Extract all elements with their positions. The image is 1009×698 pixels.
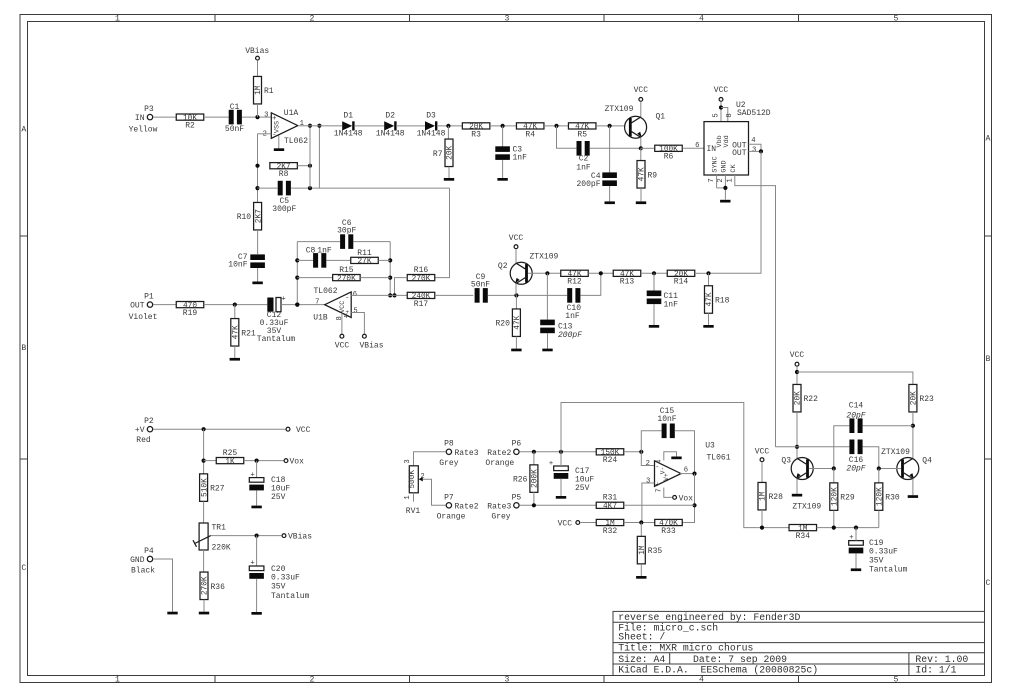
svg-text:270K: 270K	[412, 275, 431, 283]
wire R15 right	[360, 277, 390, 279]
wire Q4 base	[879, 468, 901, 470]
ground	[167, 612, 177, 615]
capacitor C19 (tantalum)	[849, 534, 908, 575]
wire D1 to D2	[354, 125, 384, 127]
svg-text:P5: P5	[512, 494, 522, 503]
wire R31 to output node	[624, 504, 695, 506]
diode D1	[342, 121, 352, 130]
wire feedback right vertical	[389, 242, 391, 296]
svg-text:P7: P7	[444, 494, 454, 503]
svg-text:300pF: 300pF	[272, 205, 296, 214]
svg-text:3: 3	[264, 112, 268, 120]
resistor R17	[407, 292, 435, 298]
wire down to R27	[203, 429, 205, 474]
capacitor C14	[846, 402, 865, 434]
svg-text:1: 1	[404, 495, 412, 499]
wire U2 OUT down to R14/R18 node	[709, 151, 762, 273]
svg-text:1nF: 1nF	[317, 247, 332, 256]
resistor R19	[176, 302, 204, 308]
capacitor C9	[471, 273, 490, 303]
svg-text:R8: R8	[279, 170, 289, 179]
ground	[792, 494, 802, 497]
svg-text:R3: R3	[471, 130, 481, 139]
connector P5 (Rate3)	[487, 494, 521, 522]
svg-text:VCC: VCC	[509, 234, 524, 243]
svg-text:R26: R26	[513, 476, 528, 485]
svg-text:Tantalum: Tantalum	[271, 592, 310, 601]
svg-text:1: 1	[300, 120, 304, 128]
resistor R3	[462, 123, 490, 129]
wire U1A pin 2	[258, 133, 272, 135]
ground	[444, 178, 454, 181]
svg-text:C: C	[21, 564, 26, 573]
potentiometer RV1 (500K)	[404, 459, 425, 516]
svg-text:TR1: TR1	[212, 524, 227, 533]
resistor R5	[568, 123, 596, 129]
svg-text:CK: CK	[730, 164, 738, 173]
svg-text:U1B: U1B	[313, 314, 328, 323]
node U2 supply	[719, 105, 723, 109]
wire feedback left vertical	[296, 242, 298, 305]
svg-text:R27: R27	[210, 485, 225, 494]
wire base node down to C13	[546, 273, 548, 319]
wire U3 pin3 down	[642, 483, 655, 523]
svg-text:20K: 20K	[795, 391, 803, 405]
svg-text:R23: R23	[919, 395, 934, 404]
svg-text:200pF: 200pF	[576, 180, 600, 189]
wire C16 to Q4 base node	[863, 447, 879, 469]
svg-text:R7: R7	[433, 150, 443, 159]
svg-text:1N4148: 1N4148	[417, 130, 446, 139]
svg-text:GND: GND	[720, 160, 728, 172]
svg-text:1nF: 1nF	[565, 312, 580, 321]
wire TR1 wiper to VBias	[211, 535, 281, 537]
svg-text:D2: D2	[385, 111, 395, 120]
svg-text:R5: R5	[577, 130, 587, 139]
svg-text:20pF: 20pF	[846, 465, 865, 474]
svg-text:R25: R25	[223, 449, 238, 458]
op-amp U1B (TL062)	[313, 287, 357, 322]
svg-text:25V: 25V	[575, 484, 590, 493]
ground	[649, 325, 659, 328]
ground	[542, 349, 552, 352]
svg-text:Date: 7 sep 2009: Date: 7 sep 2009	[693, 654, 787, 665]
svg-text:VCC: VCC	[714, 86, 729, 95]
ground	[556, 496, 566, 499]
svg-text:5: 5	[894, 675, 899, 684]
svg-text:VCC: VCC	[634, 86, 649, 95]
svg-text:VCC: VCC	[339, 301, 347, 313]
svg-text:B: B	[21, 344, 26, 353]
resistor R27	[200, 474, 208, 502]
svg-text:R13: R13	[620, 278, 635, 287]
resistor R34	[789, 525, 817, 531]
power VCC (U1B)	[335, 334, 350, 350]
wire R14 right	[695, 272, 709, 274]
wire C15 left	[641, 431, 661, 452]
svg-text:2: 2	[310, 675, 315, 684]
svg-text:ZTX109: ZTX109	[530, 253, 559, 262]
ground	[251, 506, 261, 509]
svg-text:120K: 120K	[832, 487, 840, 506]
wire R1 to pin3 node	[257, 104, 259, 117]
svg-text:5: 5	[713, 113, 721, 117]
svg-text:ZTX109: ZTX109	[605, 105, 634, 114]
svg-text:Rate2: Rate2	[487, 449, 511, 458]
svg-text:Q3: Q3	[781, 457, 791, 466]
svg-text:R6: R6	[664, 153, 674, 162]
wire C4 to ground	[609, 186, 611, 201]
ground	[636, 201, 646, 204]
svg-text:1K: 1K	[225, 458, 235, 466]
wire R30 down	[878, 510, 880, 527]
svg-text:Vox: Vox	[679, 494, 694, 503]
capacitor C1	[225, 103, 244, 134]
power VCC (Q1)	[634, 86, 649, 101]
transistor Q2 (ZTX109)	[498, 253, 559, 285]
resistor R20	[512, 309, 520, 337]
wire U2 GND pin	[724, 175, 726, 200]
power VCC (Q2)	[509, 234, 524, 248]
wire R17 to C9	[435, 294, 474, 296]
power VCC (R28)	[755, 448, 770, 462]
svg-text:1nF: 1nF	[664, 300, 679, 309]
power VBias (top)	[245, 47, 269, 60]
svg-text:VBias: VBias	[359, 341, 383, 350]
svg-text:Orange: Orange	[485, 459, 514, 468]
connector P4 (GND)	[130, 547, 155, 576]
wire Q2 emitter down	[515, 284, 517, 296]
svg-text:TL062: TL062	[284, 137, 308, 146]
wire P6 to R24	[520, 451, 597, 453]
wire R29 down	[833, 510, 835, 527]
svg-text:47K: 47K	[233, 325, 241, 339]
ground	[908, 495, 918, 498]
wire R32 to R33	[624, 522, 655, 524]
wire C3 to ground	[502, 160, 504, 178]
wire to U2 Vdd	[721, 108, 728, 122]
wire R7 to ground	[448, 167, 450, 178]
svg-text:C1: C1	[230, 103, 240, 112]
resistor R1	[254, 76, 262, 104]
capacitor C15	[657, 407, 676, 438]
IC U2 SAD512D	[695, 101, 771, 183]
svg-text:VCC: VCC	[558, 520, 573, 529]
wire feedback top right	[353, 241, 390, 243]
svg-text:Black: Black	[131, 567, 155, 576]
capacitor C12 (tantalum)	[257, 296, 296, 345]
wire R26 to P5 row	[533, 492, 535, 505]
wire down to R16 right	[434, 188, 449, 278]
svg-text:C2: C2	[579, 155, 589, 164]
svg-text:P1: P1	[144, 292, 154, 301]
svg-text:200K: 200K	[532, 469, 540, 488]
svg-text:0.33uF: 0.33uF	[869, 548, 898, 557]
svg-text:V+: V+	[663, 473, 670, 481]
svg-text:R22: R22	[804, 395, 819, 404]
svg-text:47K: 47K	[639, 167, 647, 181]
svg-text:OUT: OUT	[130, 301, 145, 310]
wire to R20	[515, 295, 517, 309]
wire P5 to R31	[520, 504, 597, 506]
wire C15 right to output	[675, 431, 695, 474]
wire VBias to R1	[257, 61, 259, 77]
svg-text:Q2: Q2	[498, 262, 508, 271]
svg-text:1N4148: 1N4148	[334, 130, 363, 139]
transistor Q1 (ZTX109)	[605, 105, 666, 138]
wire U2 CK to LFO	[735, 175, 776, 447]
wire C1 to U1A pin 3	[242, 116, 271, 118]
wire C8 to R11	[326, 259, 350, 261]
op-amp U1A (TL062)	[263, 109, 309, 146]
power Vox	[284, 458, 304, 467]
capacitor C20 (tantalum)	[249, 560, 309, 602]
wire C16 to Q3 collector node	[776, 446, 850, 448]
wire LFO long run to R34 row	[561, 403, 758, 528]
wire R25 to Vox	[244, 460, 284, 462]
wire pin2 down to R10	[257, 134, 259, 203]
svg-text:Red: Red	[136, 436, 151, 445]
wire U1B pin8 to VCC	[341, 313, 343, 333]
svg-text:+: +	[549, 460, 553, 468]
ground	[720, 200, 730, 203]
svg-text:Rev: 1.00: Rev: 1.00	[915, 654, 968, 665]
wire to C8	[297, 259, 313, 261]
resistor R2	[176, 114, 204, 120]
capacitor C3	[495, 146, 527, 163]
svg-text:OUT: OUT	[732, 149, 747, 158]
svg-text:Size: A4: Size: A4	[618, 654, 665, 665]
svg-text:IN: IN	[707, 145, 717, 154]
svg-text:10nF: 10nF	[657, 415, 676, 424]
svg-text:VBias: VBias	[288, 533, 312, 542]
svg-text:R10: R10	[237, 213, 252, 222]
connector P3 (IN)	[129, 105, 158, 135]
svg-text:3: 3	[505, 14, 510, 23]
svg-text:R31: R31	[603, 494, 618, 503]
svg-text:V-: V-	[659, 467, 666, 474]
resistor R31	[596, 502, 624, 508]
wire C2 to Q1 emitter node	[590, 147, 641, 149]
svg-text:R2: R2	[185, 122, 195, 131]
ground	[274, 148, 284, 151]
svg-text:1nF: 1nF	[513, 154, 528, 163]
resistor R36	[200, 572, 208, 600]
wire C18 to ground	[256, 490, 258, 505]
title block	[613, 611, 985, 675]
capacitor C5	[272, 181, 296, 214]
svg-text:20pF: 20pF	[846, 411, 865, 420]
svg-text:R17: R17	[414, 300, 429, 309]
wire to R15	[297, 277, 332, 279]
svg-text:R12: R12	[567, 278, 582, 287]
ground	[199, 612, 209, 615]
svg-text:VCC: VCC	[296, 426, 311, 435]
svg-text:C: C	[986, 579, 991, 588]
svg-text:Sheet: /: Sheet: /	[618, 632, 665, 643]
wire R22 to Q3 collector	[796, 412, 798, 458]
svg-text:1: 1	[115, 675, 120, 684]
wire TR1 to R36	[203, 550, 205, 572]
wire R20 to ground	[515, 337, 517, 349]
wire D3 to R3	[437, 125, 462, 127]
svg-text:+V: +V	[135, 426, 145, 435]
svg-text:1: 1	[115, 14, 120, 23]
power VCC (supply)	[286, 426, 311, 435]
svg-text:2: 2	[310, 14, 315, 23]
node: U1A pin3 junction	[255, 115, 259, 119]
svg-text:200pF: 200pF	[558, 331, 582, 340]
svg-text:RV1: RV1	[406, 507, 421, 516]
svg-text:VCC: VCC	[755, 448, 770, 457]
svg-text:Tantalum: Tantalum	[257, 335, 296, 344]
svg-text:500K: 500K	[409, 470, 417, 489]
svg-text:R21: R21	[241, 329, 256, 338]
resistor R12	[561, 270, 589, 276]
wire to C19	[855, 528, 857, 541]
svg-text:4: 4	[699, 675, 704, 684]
capacitor C18	[249, 471, 290, 502]
resistor R18	[705, 286, 713, 314]
svg-text:Violet: Violet	[129, 313, 158, 322]
svg-text:4: 4	[699, 14, 704, 23]
svg-text:R36: R36	[211, 583, 226, 592]
svg-text:D3: D3	[426, 111, 436, 120]
resistor R23	[909, 384, 917, 412]
wire C20 to ground	[256, 579, 258, 612]
capacitor C4	[576, 172, 616, 189]
capacitor C2	[576, 141, 591, 173]
capacitor C11	[647, 291, 678, 310]
svg-text:Rate2: Rate2	[455, 502, 479, 511]
resistor R13	[613, 270, 641, 276]
resistor R29	[830, 483, 838, 511]
svg-text:R4: R4	[525, 130, 535, 139]
connector P6 (Rate2)	[485, 440, 521, 469]
wire to R35	[640, 523, 642, 537]
resistor R10	[254, 202, 262, 230]
svg-text:R1: R1	[264, 87, 274, 96]
svg-text:KiCad E.D.A. EESchema (200808: KiCad E.D.A. EESchema (20080825c)	[618, 665, 818, 676]
svg-text:reverse engineered by: Fender3: reverse engineered by: Fender3D	[618, 612, 800, 623]
svg-text:1: 1	[726, 178, 734, 182]
wire C10 to R12/R13 node	[580, 273, 600, 295]
svg-text:SYNC: SYNC	[712, 156, 720, 172]
svg-text:2K7: 2K7	[255, 209, 263, 223]
svg-text:8: 8	[336, 316, 344, 320]
svg-text:3: 3	[752, 146, 756, 154]
capacitor C10	[565, 288, 581, 321]
wire U1A VSS pin to ground	[278, 136, 280, 149]
wire U1B pin5 to VBias	[351, 313, 364, 334]
svg-text:Orange: Orange	[437, 513, 466, 522]
svg-text:A: A	[21, 126, 26, 135]
wire Q2 base to R12	[528, 272, 561, 274]
svg-text:35V: 35V	[869, 557, 884, 566]
svg-text:Id: 1/1: Id: 1/1	[915, 665, 956, 676]
svg-text:20K: 20K	[447, 145, 455, 159]
wire R27 to TR1	[203, 501, 205, 523]
svg-text:5: 5	[894, 14, 899, 23]
svg-text:SAD512D: SAD512D	[737, 109, 771, 118]
wire P8 to RV1 pin3	[414, 452, 446, 466]
wire R4 to R5	[544, 125, 568, 127]
svg-text:P3: P3	[144, 105, 154, 114]
wire down to C11	[653, 273, 655, 290]
connector P1 (OUT)	[129, 292, 158, 322]
svg-text:1N4148: 1N4148	[376, 130, 405, 139]
wire R18 to ground	[708, 313, 710, 325]
wire U1A pin1 to D1	[298, 125, 342, 127]
wire R11 right	[378, 259, 390, 261]
capacitor C6	[337, 219, 356, 249]
wire down to C20	[256, 536, 258, 566]
svg-text:Q4: Q4	[922, 457, 932, 466]
svg-text:R11: R11	[357, 249, 372, 258]
svg-text:Tantalum: Tantalum	[869, 566, 908, 575]
wire R8 to output node	[297, 165, 310, 167]
trimmer TR1 (220K)	[193, 523, 231, 553]
wire VCC to Q1 collector	[640, 102, 642, 117]
wire VCC to U2 Vbb	[720, 102, 722, 122]
resistor R21	[231, 319, 239, 347]
capacitor C7	[228, 253, 265, 270]
svg-text:R24: R24	[603, 456, 618, 465]
svg-text:7: 7	[708, 178, 716, 182]
resistor R7	[445, 139, 453, 167]
wire VCC rail to R23	[797, 372, 913, 385]
svg-text:7: 7	[315, 298, 319, 306]
svg-text:27K: 27K	[357, 258, 371, 266]
transistor Q3 (ZTX109)	[781, 457, 821, 512]
svg-text:ZTX109: ZTX109	[792, 503, 821, 512]
svg-text:R20: R20	[495, 320, 510, 329]
svg-text:2: 2	[646, 460, 650, 468]
svg-text:0.33uF: 0.33uF	[271, 574, 300, 583]
wire Q4 emitter to ground	[912, 479, 914, 496]
wire R9 to ground	[640, 188, 642, 201]
power VCC (LFO)	[790, 351, 805, 366]
svg-text:Vdd: Vdd	[723, 135, 731, 147]
diode D3	[425, 121, 435, 130]
svg-text:Grey: Grey	[491, 513, 510, 522]
svg-text:TL061: TL061	[706, 453, 730, 462]
svg-text:2: 2	[717, 178, 725, 182]
svg-text:1M: 1M	[255, 85, 263, 95]
resistor R26	[530, 465, 538, 493]
svg-text:R30: R30	[885, 494, 900, 503]
svg-text:Grey: Grey	[439, 459, 458, 468]
svg-text:R14: R14	[674, 278, 689, 287]
capacitor C16	[846, 440, 865, 474]
wire C11 to ground	[653, 304, 655, 325]
wire P1 to R19	[153, 304, 176, 306]
svg-text:R28: R28	[769, 493, 784, 502]
svg-text:R32: R32	[603, 527, 618, 536]
power VCC (LFO divider)	[558, 520, 580, 529]
wire to U3 pin 2	[641, 452, 654, 466]
wire U1B pin6 to R17	[351, 294, 407, 296]
wire to R7	[447, 126, 449, 139]
svg-text:+: +	[281, 296, 285, 304]
resistor R33	[655, 519, 683, 525]
svg-text:R9: R9	[648, 171, 658, 180]
wire C14 to Q3 base node	[834, 426, 850, 469]
wire P4 to ground	[153, 559, 172, 612]
svg-text:1nF: 1nF	[576, 164, 591, 173]
wire R34 row right	[817, 527, 879, 529]
wire to R9	[640, 148, 642, 160]
